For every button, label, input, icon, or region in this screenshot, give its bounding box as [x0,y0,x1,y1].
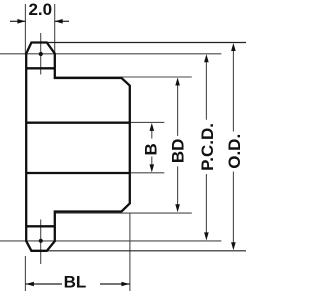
svg-text:BD: BD [169,139,188,164]
svg-text:B: B [142,143,161,155]
svg-text:O.D.: O.D. [225,134,244,169]
svg-text:BL: BL [64,273,87,292]
svg-text:2.0: 2.0 [28,0,52,19]
svg-text:P.C.D.: P.C.D. [198,123,217,171]
